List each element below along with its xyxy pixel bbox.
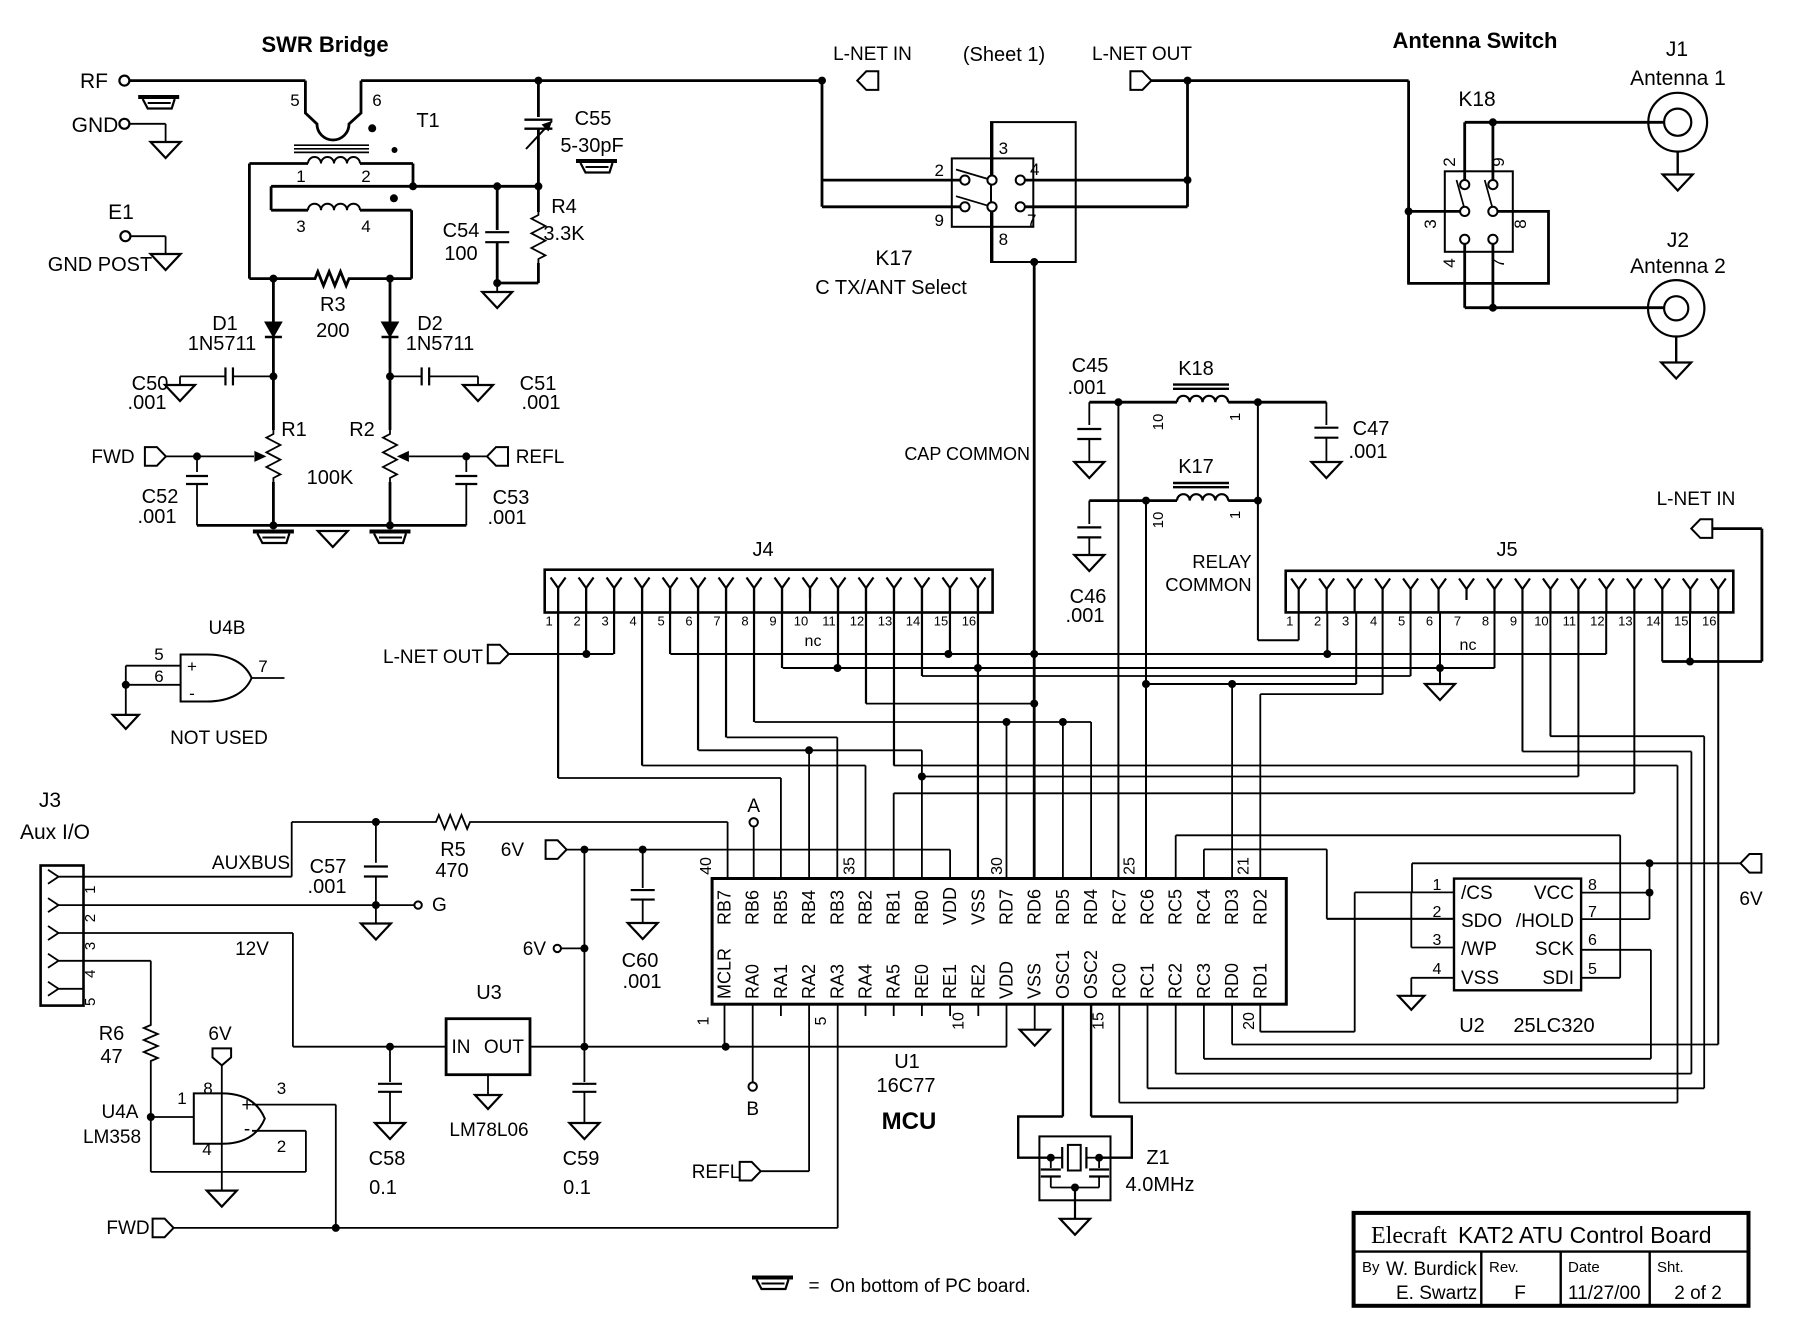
svg-text:U4A: U4A [102,1102,139,1123]
svg-text:15: 15 [1090,1012,1107,1030]
svg-text:K18: K18 [1458,88,1495,111]
svg-text:RB7: RB7 [715,890,735,925]
svg-text:3: 3 [1421,219,1440,228]
svg-text:D2: D2 [417,313,443,335]
svg-text:VSS: VSS [1461,968,1499,989]
svg-text:F: F [1514,1283,1526,1304]
svg-text:RD1: RD1 [1250,963,1270,999]
svg-text:1: 1 [696,1016,713,1025]
svg-text:5: 5 [290,91,299,110]
svg-text:OSC1: OSC1 [1053,950,1073,999]
svg-text:RD2: RD2 [1250,889,1270,925]
svg-text:8: 8 [999,230,1008,249]
svg-text:6V: 6V [208,1024,232,1045]
svg-text:2 of 2: 2 of 2 [1674,1283,1722,1304]
svg-text:=: = [808,1276,819,1297]
svg-text:U2: U2 [1459,1015,1485,1037]
svg-text:Antenna Switch: Antenna Switch [1392,28,1557,53]
svg-text:15: 15 [934,614,948,629]
svg-text:2: 2 [1314,614,1321,629]
svg-text:3: 3 [277,1079,286,1098]
svg-text:2: 2 [361,167,370,186]
svg-text:35: 35 [842,857,859,875]
svg-text:Aux I/O: Aux I/O [20,821,90,844]
svg-text:REFL: REFL [692,1162,741,1183]
svg-text:OSC2: OSC2 [1081,950,1101,999]
svg-text:3: 3 [1342,614,1349,629]
svg-text:C57: C57 [310,856,347,878]
svg-text:.001: .001 [1066,605,1105,627]
svg-text:14: 14 [1646,614,1660,629]
svg-text:9: 9 [935,211,944,230]
svg-text:16C77: 16C77 [877,1075,936,1097]
svg-text:6: 6 [685,614,692,629]
svg-text:8: 8 [203,1079,212,1098]
svg-text:1N5711: 1N5711 [406,333,475,355]
svg-text:9: 9 [1510,614,1517,629]
svg-text:C45: C45 [1072,355,1109,377]
svg-text:13: 13 [1618,614,1632,629]
svg-text:RC4: RC4 [1194,889,1214,925]
svg-text:21: 21 [1236,857,1253,875]
svg-text:11: 11 [1563,614,1577,629]
svg-text:RB1: RB1 [884,890,904,925]
svg-text:10: 10 [1150,512,1167,529]
svg-text:20: 20 [1241,1012,1258,1030]
svg-text:10: 10 [951,1012,968,1030]
svg-text:Date: Date [1568,1259,1600,1276]
svg-text:10: 10 [1150,414,1167,431]
svg-text:4: 4 [1370,614,1377,629]
svg-text:MCU: MCU [882,1108,937,1135]
svg-text:RC0: RC0 [1109,963,1129,999]
svg-text:2: 2 [573,614,580,629]
svg-text:-: - [244,1119,250,1140]
svg-text:On bottom of PC board.: On bottom of PC board. [830,1276,1031,1297]
svg-text:B: B [746,1099,759,1120]
svg-text:6: 6 [1588,932,1597,949]
svg-text:FWD: FWD [106,1218,149,1239]
svg-text:16: 16 [1702,614,1716,629]
svg-text:CAP COMMON: CAP COMMON [904,444,1030,464]
svg-text:W. Burdick: W. Burdick [1386,1259,1477,1280]
svg-text:L-NET OUT: L-NET OUT [383,647,483,668]
svg-text:RC2: RC2 [1166,963,1186,999]
svg-text:-: - [189,684,195,703]
svg-text:3: 3 [82,942,99,950]
svg-text:U3: U3 [476,982,502,1004]
svg-text:7: 7 [1454,614,1461,629]
svg-text:+: + [241,1095,252,1116]
svg-text:RB6: RB6 [743,890,763,925]
svg-text:E1: E1 [108,201,134,224]
svg-text:2: 2 [277,1137,286,1156]
svg-text:+: + [187,657,197,676]
svg-text:R5: R5 [440,839,466,861]
svg-text:J5: J5 [1496,539,1517,561]
svg-text:LM358: LM358 [83,1127,141,1148]
svg-text:7: 7 [1489,258,1508,267]
svg-text:1N5711: 1N5711 [188,333,257,355]
svg-text:VDD: VDD [940,887,960,925]
svg-text:D1: D1 [212,313,238,335]
svg-text:RC1: RC1 [1138,963,1158,999]
svg-text:4: 4 [629,614,636,629]
svg-text:RB4: RB4 [799,890,819,925]
svg-text:6: 6 [372,91,381,110]
svg-text:FWD: FWD [91,447,134,468]
svg-text:4: 4 [82,970,99,978]
svg-text:Rev.: Rev. [1489,1259,1519,1276]
svg-text:0.1: 0.1 [563,1177,591,1199]
svg-text:3: 3 [296,217,305,236]
svg-text:IN: IN [452,1037,471,1058]
svg-text:RA4: RA4 [856,964,876,999]
svg-text:C54: C54 [443,220,480,242]
svg-text:COMMON: COMMON [1165,574,1251,595]
svg-text:T1: T1 [416,110,439,132]
svg-text:VSS: VSS [968,889,988,925]
svg-text:MCLR: MCLR [715,948,735,999]
svg-text:1: 1 [1227,413,1244,421]
svg-text:RB0: RB0 [912,890,932,925]
svg-text:RD3: RD3 [1222,889,1242,925]
svg-text:RA1: RA1 [771,964,791,999]
svg-text:RE2: RE2 [968,964,988,999]
svg-text:Z1: Z1 [1146,1147,1169,1169]
svg-text:6V: 6V [501,840,525,861]
svg-text:RA5: RA5 [884,964,904,999]
svg-text:C53: C53 [493,487,530,509]
svg-text:Antenna 1: Antenna 1 [1630,67,1726,90]
svg-text:3: 3 [601,614,608,629]
svg-text:OUT: OUT [484,1037,525,1058]
svg-text:RC7: RC7 [1109,889,1129,925]
svg-text:7: 7 [713,614,720,629]
svg-text:12V: 12V [235,939,269,960]
svg-text:A: A [747,796,760,817]
svg-text:GND: GND [72,114,119,137]
svg-text:9: 9 [1489,157,1508,166]
svg-text:25: 25 [1122,857,1139,875]
svg-text:5: 5 [82,998,99,1006]
svg-text:J2: J2 [1667,229,1689,252]
svg-text:U1: U1 [894,1051,920,1073]
svg-text:K17: K17 [875,247,912,270]
svg-text:.001: .001 [522,392,561,414]
svg-text:VCC: VCC [1534,883,1574,904]
svg-text:4.0MHz: 4.0MHz [1126,1174,1195,1196]
svg-text:J3: J3 [39,789,61,812]
svg-text:RD0: RD0 [1222,963,1242,999]
svg-text:RC3: RC3 [1194,963,1214,999]
svg-text:R4: R4 [551,196,577,218]
svg-text:7: 7 [258,657,267,676]
svg-text:12: 12 [1590,614,1604,629]
svg-text:RB5: RB5 [771,890,791,925]
svg-text:2: 2 [1440,157,1459,166]
svg-text:.001: .001 [623,971,662,993]
svg-text:J1: J1 [1666,38,1688,61]
svg-text:R3: R3 [320,294,346,316]
svg-text:12: 12 [850,614,864,629]
svg-text:5-30pF: 5-30pF [560,135,623,157]
svg-text:SDI: SDI [1542,968,1574,989]
svg-text:3.3K: 3.3K [543,223,585,245]
svg-text:L-NET IN: L-NET IN [1657,489,1736,510]
svg-text:15: 15 [1674,614,1688,629]
svg-text:RB2: RB2 [856,890,876,925]
svg-text:RC5: RC5 [1166,889,1186,925]
svg-text:1: 1 [545,614,552,629]
svg-text:C47: C47 [1353,418,1390,440]
svg-text:4: 4 [361,217,370,236]
svg-text:11: 11 [822,614,836,629]
svg-text:8: 8 [1482,614,1489,629]
svg-text:5: 5 [657,614,664,629]
svg-text:C58: C58 [369,1148,406,1170]
svg-text:Elecraft: Elecraft [1371,1223,1447,1249]
svg-text:6: 6 [154,667,163,686]
svg-text:100: 100 [444,243,477,265]
svg-text:0.1: 0.1 [369,1177,397,1199]
svg-text:3: 3 [1433,932,1442,949]
svg-text:8: 8 [741,614,748,629]
svg-text:RD6: RD6 [1025,889,1045,925]
svg-text:10: 10 [794,614,808,629]
svg-text:2: 2 [935,161,944,180]
svg-text:nc: nc [1460,637,1477,654]
svg-text:C59: C59 [563,1148,600,1170]
svg-text:16: 16 [962,614,976,629]
svg-text:RB3: RB3 [827,890,847,925]
svg-text:RC6: RC6 [1138,889,1158,925]
svg-text:8: 8 [1588,877,1597,894]
svg-text:10: 10 [1534,614,1548,629]
svg-text:RELAY: RELAY [1192,551,1251,572]
svg-text:.001: .001 [1349,441,1388,463]
svg-text:4: 4 [1440,258,1459,267]
svg-text:13: 13 [878,614,892,629]
svg-text:8: 8 [1511,219,1530,228]
svg-text:K18: K18 [1178,358,1214,380]
svg-text:G: G [432,895,447,916]
svg-text:40: 40 [698,857,715,875]
svg-text:6: 6 [1426,614,1433,629]
svg-text:5: 5 [1398,614,1405,629]
svg-text:REFL: REFL [516,447,565,468]
svg-text:5: 5 [813,1016,830,1025]
svg-text:SWR Bridge: SWR Bridge [261,32,388,57]
svg-text:5: 5 [154,645,163,664]
svg-text:VDD: VDD [997,961,1017,999]
svg-text:470: 470 [435,860,468,882]
svg-text:C55: C55 [575,108,612,130]
svg-text:25LC320: 25LC320 [1513,1015,1594,1037]
svg-text:6V: 6V [523,939,547,960]
svg-text:.001: .001 [488,507,527,529]
svg-text:K17: K17 [1178,456,1214,478]
svg-text:RD5: RD5 [1053,889,1073,925]
svg-text:5: 5 [1588,961,1597,978]
svg-text:RD7: RD7 [997,889,1017,925]
svg-text:L-NET OUT: L-NET OUT [1092,44,1192,65]
svg-text:3: 3 [999,139,1008,158]
svg-text:RE1: RE1 [940,964,960,999]
svg-text:RA0: RA0 [743,964,763,999]
svg-text:C52: C52 [142,486,179,508]
svg-text:(Sheet 1): (Sheet 1) [963,44,1045,66]
svg-text:RA2: RA2 [799,964,819,999]
svg-text:1: 1 [82,886,99,894]
svg-text:U4B: U4B [209,618,246,639]
svg-text:/HOLD: /HOLD [1516,911,1574,932]
svg-text:4: 4 [1433,961,1442,978]
svg-text:4: 4 [202,1140,211,1159]
svg-text:E. Swartz: E. Swartz [1396,1283,1477,1304]
svg-text:RE0: RE0 [912,964,932,999]
svg-text:.001: .001 [138,506,177,528]
svg-text:AUXBUS: AUXBUS [212,853,290,874]
svg-text:9: 9 [769,614,776,629]
svg-text:LM78L06: LM78L06 [449,1120,528,1141]
svg-text:30: 30 [989,857,1006,875]
svg-text:1: 1 [177,1089,186,1108]
svg-text:SCK: SCK [1535,939,1574,960]
svg-text:RD4: RD4 [1081,889,1101,925]
svg-text:Sht.: Sht. [1657,1259,1684,1276]
svg-text:J4: J4 [752,539,773,561]
svg-text:7: 7 [1027,211,1036,230]
svg-text:1: 1 [296,167,305,186]
svg-text:11/27/00: 11/27/00 [1568,1283,1641,1304]
svg-text:By: By [1362,1259,1380,1276]
svg-text:200: 200 [316,320,349,342]
svg-text:.001: .001 [1068,377,1107,399]
svg-text:100K: 100K [307,467,354,489]
svg-text:14: 14 [906,614,920,629]
svg-text:RA3: RA3 [827,964,847,999]
svg-text:1: 1 [1227,511,1244,519]
svg-text:47: 47 [100,1046,122,1068]
svg-text:C TX/ANT Select: C TX/ANT Select [815,277,967,299]
svg-text:/CS: /CS [1461,883,1493,904]
svg-text:RF: RF [80,70,108,93]
svg-text:VSS: VSS [1025,963,1045,999]
svg-text:6V: 6V [1739,889,1763,910]
svg-text:.001: .001 [128,392,167,414]
svg-text:1: 1 [1286,614,1293,629]
svg-text:SDO: SDO [1461,911,1502,932]
svg-text:GND POST: GND POST [48,254,152,276]
svg-text:4: 4 [1030,160,1039,179]
svg-text:NOT USED: NOT USED [170,728,268,749]
svg-text:nc: nc [805,633,822,650]
svg-text:KAT2 ATU Control Board: KAT2 ATU Control Board [1458,1222,1712,1248]
svg-text:1: 1 [1433,877,1442,894]
svg-text:/WP: /WP [1461,939,1497,960]
svg-text:C60: C60 [622,950,659,972]
svg-text:Antenna 2: Antenna 2 [1630,255,1726,278]
svg-text:.001: .001 [308,876,347,898]
svg-text:2: 2 [82,914,99,922]
svg-text:R1: R1 [281,419,307,441]
svg-text:L-NET IN: L-NET IN [833,44,912,65]
svg-text:R6: R6 [99,1023,125,1045]
svg-text:R2: R2 [349,419,375,441]
